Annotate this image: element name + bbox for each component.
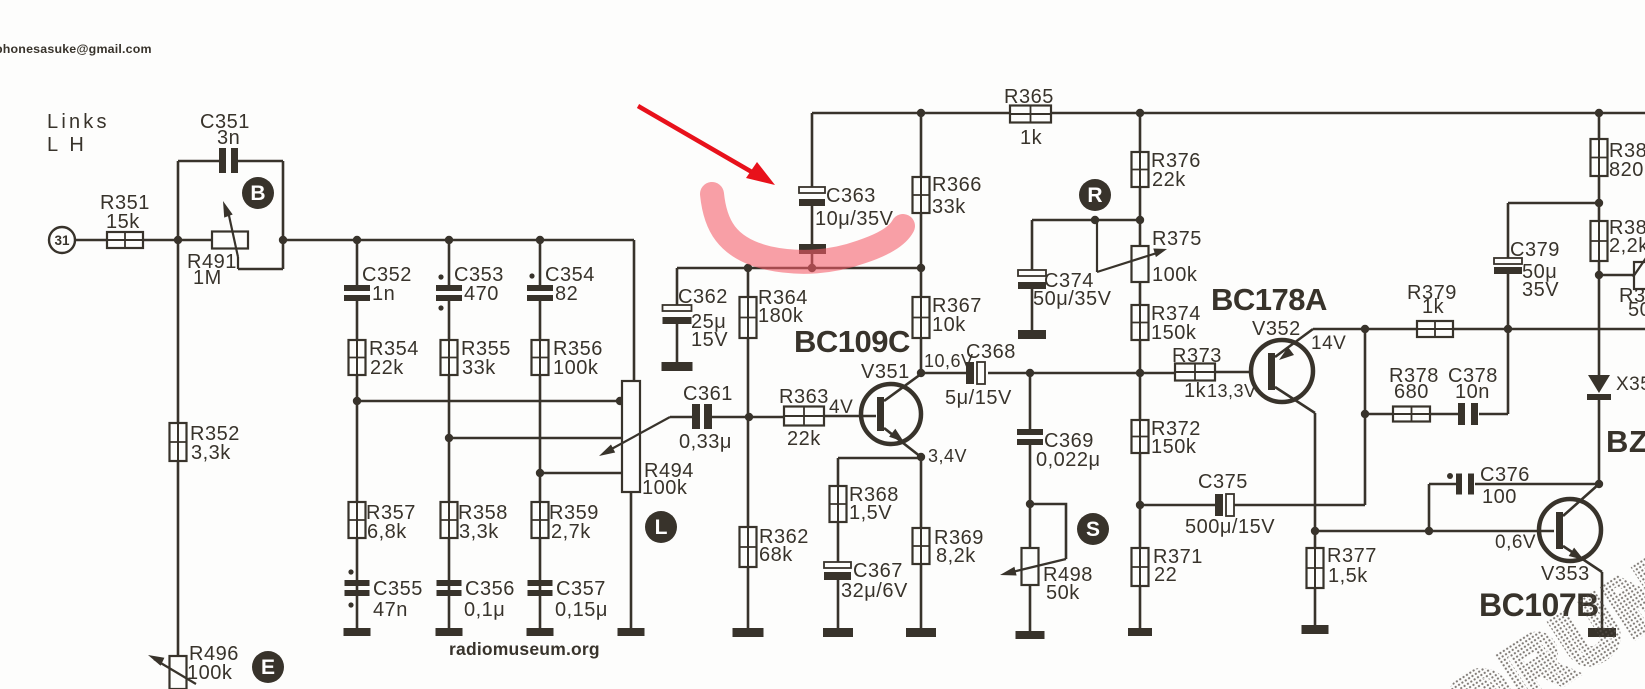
svg-text:L: L	[655, 516, 668, 539]
svg-text:2,7k: 2,7k	[551, 521, 591, 543]
label BC178A	[1211, 282, 1327, 317]
resistor R369	[913, 527, 984, 567]
label BZ zener	[1606, 424, 1645, 459]
ground col2	[436, 628, 463, 636]
resistor R378	[1389, 365, 1439, 422]
resistor R379	[1407, 282, 1457, 337]
junction node C363	[808, 264, 816, 272]
junction C376 node	[1595, 480, 1603, 488]
label 3,4V	[928, 446, 967, 466]
svg-text:10n: 10n	[1455, 381, 1490, 403]
wire feedback box right	[282, 161, 285, 269]
junction trimmer node	[1595, 271, 1603, 279]
ground R377	[1302, 625, 1329, 634]
svg-text:C368: C368	[966, 341, 1016, 363]
wire main bus	[283, 239, 634, 242]
resistor R367	[913, 295, 982, 338]
svg-text:C361: C361	[683, 383, 733, 405]
capacitor C379	[1494, 239, 1560, 414]
wire R375 to R374	[1139, 282, 1142, 305]
svg-text:R373: R373	[1172, 345, 1222, 367]
svg-text:R: R	[1087, 184, 1102, 207]
wire R494 to ground	[630, 492, 633, 628]
wire R372 to C375 node	[1139, 453, 1142, 548]
wire R369 to ground	[920, 564, 923, 628]
wire R363 to V351 base	[824, 415, 876, 418]
resistor R368	[830, 484, 899, 524]
wire 14V rail	[1313, 328, 1645, 331]
wire R373 to V352 base	[1215, 371, 1251, 374]
label BC107B	[1479, 587, 1599, 623]
svg-text:100: 100	[1482, 486, 1517, 508]
node B	[242, 177, 274, 209]
junction R498 wiper node	[1026, 500, 1034, 508]
svg-text:100k: 100k	[1152, 264, 1198, 286]
wiper arrow R491	[223, 201, 238, 269]
svg-text:6,8k: 6,8k	[367, 521, 407, 543]
junction tap1 col1	[353, 397, 361, 405]
wire emitter to R369	[920, 458, 923, 528]
svg-text:0,33μ: 0,33μ	[679, 431, 732, 453]
wiper arrow R496	[148, 655, 196, 684]
wire V353 emitter down	[1601, 572, 1604, 628]
wire R380 to R381	[1598, 176, 1601, 221]
wire bus to C352	[356, 240, 359, 285]
resistor R366	[913, 174, 982, 218]
resistor R371	[1132, 546, 1203, 586]
transistor V352	[1251, 329, 1315, 413]
capacitor C357	[528, 578, 608, 621]
svg-text:150k: 150k	[1151, 322, 1197, 344]
ground R498	[1016, 631, 1045, 639]
svg-text:31: 31	[54, 233, 70, 248]
junction node R366 bottom	[917, 264, 925, 272]
node S	[1077, 513, 1109, 545]
wire tap1 bus	[357, 400, 622, 403]
svg-text:5μ/15V: 5μ/15V	[945, 387, 1012, 409]
wire C369 to R498	[1029, 445, 1032, 548]
junction tap1 at R494	[616, 397, 624, 405]
svg-text:3,4V: 3,4V	[928, 446, 967, 466]
wire C375 left	[1140, 504, 1215, 507]
capacitor C374	[1018, 270, 1112, 330]
label 14V	[1311, 333, 1346, 354]
wire emitter to R368	[837, 458, 840, 486]
potentiometer R375	[1132, 228, 1202, 286]
junction rail x1365	[1361, 325, 1369, 333]
junction bus C354	[536, 236, 544, 244]
wire R354 down	[356, 375, 359, 628]
resistor R374	[1132, 303, 1201, 344]
wire wiper to C361	[670, 416, 692, 419]
wire R367 to collector	[920, 338, 923, 374]
wire C363 node bus	[677, 267, 921, 270]
wire riser to C376	[1429, 483, 1456, 486]
junction bus C352	[353, 236, 361, 244]
svg-text:22: 22	[1154, 564, 1177, 586]
wire node to C369	[1029, 373, 1032, 429]
junction R375 top node	[1136, 216, 1144, 224]
wiper arrow R375	[1097, 221, 1167, 272]
wire to edge trimmer	[1599, 274, 1634, 277]
wire R381 to diode	[1598, 261, 1601, 375]
wire R498 to ground	[1029, 585, 1032, 631]
svg-text:50μ/35V: 50μ/35V	[1033, 288, 1112, 310]
wire wiper loop R498	[1030, 504, 1066, 559]
wire rail to R366	[920, 113, 923, 177]
resistor R365	[1004, 86, 1054, 149]
wire C368 to bias line	[988, 372, 1140, 375]
capacitor C361	[679, 383, 733, 453]
wire R364 to R362	[747, 338, 750, 628]
svg-text:10k: 10k	[932, 314, 966, 336]
wire collector to C368	[921, 372, 966, 375]
svg-text:47n: 47n	[373, 599, 408, 621]
junction C375 node	[1136, 501, 1144, 509]
resistor R356	[532, 338, 603, 379]
svg-text:35V: 35V	[1522, 279, 1559, 301]
svg-text:1k: 1k	[1184, 380, 1207, 402]
capacitor C378	[1448, 365, 1498, 425]
svg-text:500μ/15V: 500μ/15V	[1185, 516, 1275, 538]
wire node to R378	[1365, 413, 1393, 416]
wire C378 to riser	[1479, 413, 1508, 416]
svg-text:50: 50	[1628, 299, 1645, 321]
svg-text:33k: 33k	[462, 357, 496, 379]
wire bus to R494 top	[633, 240, 636, 381]
resistor R362	[740, 526, 809, 567]
svg-text:82: 82	[555, 283, 578, 305]
svg-text:R363: R363	[779, 386, 829, 408]
wire R375 tap bus	[1032, 219, 1140, 222]
ground V353 emitter	[1588, 628, 1616, 637]
ground R494	[618, 628, 645, 636]
svg-text:V352: V352	[1252, 318, 1301, 340]
svg-text:32μ/6V: 32μ/6V	[841, 580, 908, 602]
junction rail R376 line	[1136, 109, 1144, 117]
resistor R363	[779, 386, 829, 450]
wire bus to C353	[448, 240, 451, 285]
junction input left	[174, 236, 182, 244]
wire top supply rail	[812, 112, 1645, 115]
annotation red arrow	[638, 106, 775, 185]
wire top rail to C363	[811, 113, 814, 187]
svg-text:R366: R366	[932, 174, 982, 196]
ground col1	[344, 628, 371, 636]
svg-text:680: 680	[1394, 381, 1429, 403]
junction bus C353	[445, 236, 453, 244]
label V351	[861, 361, 910, 383]
svg-text:100k: 100k	[187, 662, 233, 684]
capacitor C363	[799, 185, 894, 268]
potentiometer R494	[622, 381, 694, 499]
svg-text:22k: 22k	[787, 428, 821, 450]
svg-text:3n: 3n	[217, 127, 240, 149]
potentiometer R3xx edge	[1619, 255, 1645, 321]
junction base node V351	[745, 413, 753, 421]
junction C376 base node	[1425, 527, 1433, 535]
transistor V351	[861, 374, 921, 457]
wire R371 to ground	[1139, 586, 1142, 628]
svg-text:100k: 100k	[642, 477, 688, 499]
resistor R358	[441, 502, 508, 543]
resistor R381	[1591, 217, 1645, 261]
svg-text:C375: C375	[1198, 471, 1248, 493]
diode X35	[1587, 374, 1645, 400]
resistor R355	[441, 338, 511, 379]
capacitor C369	[1017, 429, 1101, 471]
ground col3	[527, 628, 554, 636]
capacitor C352	[344, 264, 412, 305]
resistor R377	[1307, 545, 1377, 588]
junction V353 base node	[1311, 527, 1319, 535]
svg-text:13,3V: 13,3V	[1207, 381, 1257, 401]
svg-text:R377: R377	[1327, 545, 1377, 567]
node R	[1079, 179, 1111, 211]
label V353	[1541, 563, 1590, 585]
wire R355 down	[448, 375, 451, 628]
svg-text:68k: 68k	[759, 544, 793, 566]
svg-text:2,2k: 2,2k	[1609, 235, 1645, 257]
svg-text:22k: 22k	[370, 357, 404, 379]
ground C367	[823, 628, 853, 637]
wire base node to R372	[1139, 373, 1142, 420]
wire C379 top link	[1508, 202, 1599, 205]
junction C379 drop	[1504, 325, 1512, 333]
svg-text:15k: 15k	[106, 211, 140, 233]
junction R380 R381	[1595, 199, 1603, 207]
junction wiper tap R375	[1091, 216, 1099, 224]
svg-text:BC109C: BC109C	[794, 324, 910, 359]
svg-text:B: B	[250, 182, 265, 205]
wire R374 to base node	[1139, 340, 1142, 373]
svg-text:1n: 1n	[372, 283, 395, 305]
label BC109C	[794, 324, 910, 359]
ground R362	[733, 628, 764, 637]
svg-text:10μ/35V: 10μ/35V	[815, 208, 894, 230]
ground R369	[906, 628, 936, 637]
svg-text:C362: C362	[678, 286, 728, 308]
wire R368 to C367	[837, 522, 840, 562]
watermark radiomuseum.org	[449, 639, 600, 659]
svg-text:V351: V351	[861, 361, 910, 383]
wire 14V to R378 node	[1364, 329, 1367, 505]
svg-text:R375: R375	[1152, 228, 1202, 250]
wire V352 collector	[1314, 413, 1317, 531]
capacitor C356	[437, 578, 515, 621]
svg-text:C379: C379	[1510, 239, 1560, 261]
svg-text:R365: R365	[1004, 86, 1054, 108]
junction collector V351	[917, 369, 925, 377]
wire C361 to R363	[712, 416, 784, 419]
ground C362	[662, 362, 693, 371]
junction rail R380 line	[1595, 109, 1603, 117]
wire R351 to R491	[143, 239, 212, 242]
capacitor C354	[527, 264, 595, 305]
wire rail to R380	[1598, 113, 1601, 139]
svg-text:0,022μ: 0,022μ	[1036, 449, 1101, 471]
wire diode to C376 node	[1598, 400, 1601, 484]
wire node to R364	[747, 268, 750, 297]
wire C354 to R356	[539, 301, 542, 340]
transistor V353	[1539, 484, 1602, 572]
svg-text:E: E	[261, 656, 275, 679]
wire node to R367	[920, 268, 923, 297]
resistor R351	[100, 192, 150, 248]
svg-text:BZ: BZ	[1606, 424, 1645, 459]
svg-text:C357: C357	[556, 578, 606, 600]
wire bus to C354	[539, 240, 542, 285]
label 0,6V	[1495, 532, 1536, 553]
svg-text:radiomuseum.org: radiomuseum.org	[449, 639, 600, 659]
wire V353 base bus	[1315, 530, 1554, 533]
capacitor C375	[1185, 471, 1275, 538]
wire tap3 bus	[540, 472, 622, 475]
wire tap to C374	[1031, 220, 1034, 270]
svg-text:4V: 4V	[829, 397, 853, 418]
resistor R380	[1591, 139, 1645, 181]
svg-text:1,5V: 1,5V	[849, 502, 892, 524]
wire C352 to R354	[356, 301, 359, 340]
resistor R357	[349, 502, 416, 543]
svg-text:14V: 14V	[1311, 333, 1346, 354]
resistor R352	[170, 423, 240, 464]
wire feedback box left	[177, 161, 180, 240]
wire R366 to node	[920, 213, 923, 268]
svg-text:22k: 22k	[1152, 169, 1186, 191]
wire V353 base riser	[1428, 484, 1431, 531]
resistor R373	[1172, 345, 1257, 402]
capacitor C376	[1447, 464, 1530, 508]
wiper arrow R494	[599, 417, 670, 456]
svg-text:C356: C356	[465, 578, 515, 600]
node 31 input terminal	[49, 227, 75, 253]
potentiometer R498	[1022, 548, 1093, 604]
svg-text:8,2k: 8,2k	[936, 545, 976, 567]
svg-text:1M: 1M	[193, 267, 222, 289]
svg-text:820: 820	[1609, 159, 1644, 181]
capacitor C367	[824, 560, 908, 628]
wiper arrow R498	[1000, 559, 1066, 576]
junction tap2 col2	[445, 434, 453, 442]
wire C379 drop	[1507, 203, 1510, 258]
svg-text:L H: L H	[47, 134, 87, 156]
resistor R372	[1132, 418, 1201, 458]
wire bias to R373	[1140, 372, 1175, 375]
svg-text:Links: Links	[47, 111, 110, 133]
wire node31 to R351	[75, 239, 107, 242]
junction tap3 col3	[536, 469, 544, 477]
wire emitter bus	[838, 457, 921, 460]
wire R376 to R375	[1139, 187, 1142, 246]
junction emitter V351	[917, 453, 925, 461]
junction C369 node	[1026, 369, 1034, 377]
wire feedback box bottom	[238, 268, 283, 271]
svg-text:100k: 100k	[553, 357, 599, 379]
wire C375 link	[1234, 504, 1365, 507]
label 4V base voltage	[829, 397, 853, 418]
svg-text:3,3k: 3,3k	[459, 521, 499, 543]
wire rail to R376	[1139, 113, 1142, 152]
wire R352 to R496	[177, 461, 180, 656]
svg-text:V353: V353	[1541, 563, 1590, 585]
capacitor C355	[345, 569, 423, 621]
capacitor C353	[436, 264, 504, 311]
svg-text:1k: 1k	[1422, 296, 1445, 318]
capacitor C368	[945, 341, 1016, 409]
svg-text:1,5k: 1,5k	[1328, 565, 1368, 587]
capacitor C351	[178, 111, 283, 173]
svg-text:0,15μ: 0,15μ	[555, 599, 608, 621]
ground C374	[1018, 330, 1046, 339]
junction R491 right	[279, 236, 287, 244]
svg-text:50k: 50k	[1046, 582, 1080, 604]
potentiometer R491	[187, 232, 248, 290]
resistor R364	[740, 287, 808, 338]
capacitor C362	[663, 268, 729, 362]
node E	[252, 651, 284, 683]
svg-text:0,1μ: 0,1μ	[464, 599, 505, 621]
junction node C362	[744, 264, 752, 272]
svg-text:0,6V: 0,6V	[1495, 532, 1536, 553]
svg-text:1k: 1k	[1020, 127, 1043, 149]
label 10,6V	[924, 351, 974, 371]
potentiometer R496	[170, 643, 239, 689]
svg-text:X35: X35	[1616, 374, 1645, 395]
junction rail R366	[917, 109, 925, 117]
svg-text:BC178A: BC178A	[1211, 282, 1327, 317]
wire C376 to zener node	[1475, 483, 1599, 486]
wire node to R377	[1314, 531, 1317, 548]
wire bus to R352	[177, 240, 180, 423]
svg-text:15V: 15V	[691, 329, 728, 351]
svg-text:C355: C355	[373, 578, 423, 600]
wire R356 down	[539, 375, 542, 628]
wire R378 to C378	[1430, 413, 1458, 416]
svg-text:470: 470	[464, 283, 499, 305]
wire R377 to ground	[1314, 588, 1317, 625]
watermark halftone letters	[1431, 542, 1645, 689]
svg-text:33k: 33k	[932, 196, 966, 218]
svg-text:S: S	[1086, 518, 1100, 541]
resistor R354	[349, 338, 419, 379]
svg-text:150k: 150k	[1151, 436, 1197, 458]
svg-text:C363: C363	[826, 185, 876, 207]
svg-text:phonesasuke@gmail.com: phonesasuke@gmail.com	[0, 42, 152, 56]
label V352	[1252, 318, 1301, 340]
svg-text:3,3k: 3,3k	[191, 442, 231, 464]
wire C353 to R355	[448, 301, 451, 340]
ground R371	[1128, 628, 1152, 636]
highlight marker swoosh	[712, 194, 903, 262]
label Links LH channel	[47, 111, 110, 156]
watermark email text	[0, 42, 152, 56]
resistor R359	[532, 502, 599, 543]
node L	[645, 511, 677, 543]
svg-text:C367: C367	[853, 560, 903, 582]
resistor R376	[1132, 150, 1201, 191]
junction R378 node	[1361, 410, 1369, 418]
wire tap2 bus	[449, 437, 622, 440]
junction base node V352	[1136, 369, 1144, 377]
